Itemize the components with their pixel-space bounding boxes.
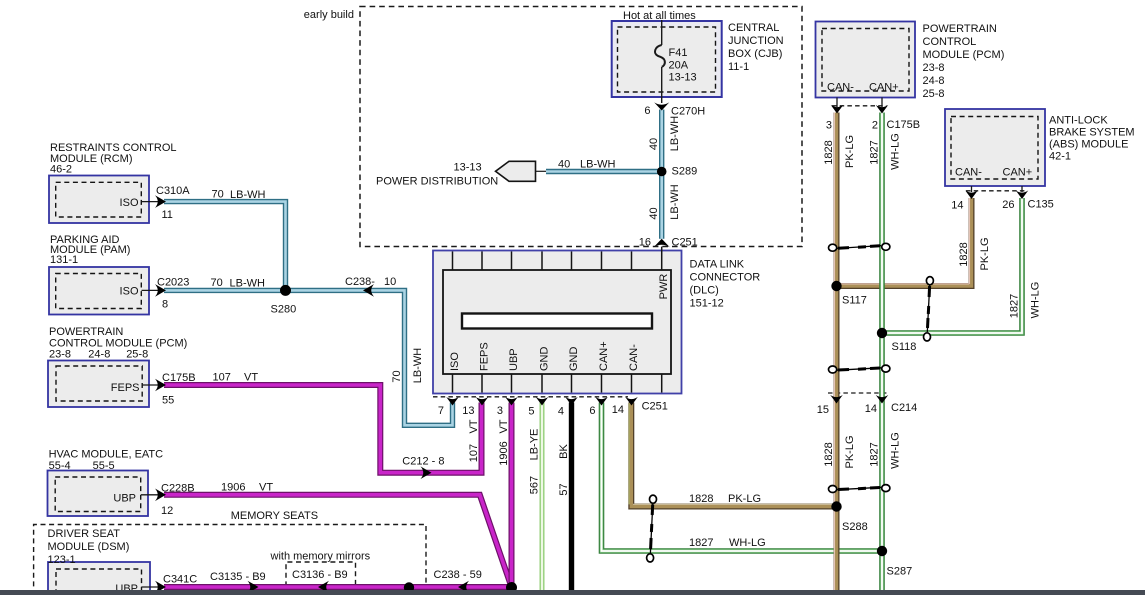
svg-text:20A: 20A: [669, 59, 689, 71]
svg-text:LB-WH: LB-WH: [580, 159, 616, 171]
svg-text:46-2: 46-2: [50, 164, 72, 176]
svg-text:LB-WH: LB-WH: [230, 278, 266, 290]
svg-text:DRIVER SEAT: DRIVER SEAT: [48, 528, 121, 540]
svg-text:CAN-: CAN-: [955, 166, 982, 178]
svg-text:MEMORY SEATS: MEMORY SEATS: [231, 510, 318, 522]
with memory mirrors dashed box: [286, 562, 356, 595]
svg-text:6: 6: [644, 105, 650, 117]
svg-text:POWERTRAIN: POWERTRAIN: [49, 326, 123, 338]
DLC inner box: [443, 270, 671, 374]
svg-text:CAN+: CAN+: [1003, 166, 1033, 178]
svg-text:C3136 - B9: C3136 - B9: [292, 569, 348, 581]
DLC top cell ticks: [453, 252, 632, 271]
svg-text:7: 7: [438, 405, 444, 417]
svg-text:123-1: 123-1: [48, 554, 76, 566]
svg-text:26: 26: [1002, 199, 1014, 211]
svg-text:HVAC MODULE, EATC: HVAC MODULE, EATC: [49, 449, 164, 461]
svg-text:FEPS: FEPS: [111, 382, 140, 394]
svg-text:BRAKE SYSTEM: BRAKE SYSTEM: [1049, 126, 1135, 138]
svg-text:MODULE (PCM): MODULE (PCM): [923, 49, 1005, 61]
svg-text:57: 57: [558, 483, 570, 495]
connector arrow C3136-B9: [318, 581, 329, 594]
svg-text:PK-LG: PK-LG: [844, 435, 856, 468]
splice S118: [877, 328, 887, 338]
splice S287: [877, 546, 887, 556]
svg-text:GND: GND: [539, 347, 551, 372]
early build dashed boundary box: [360, 7, 802, 247]
svg-text:1906: 1906: [221, 482, 245, 494]
svg-text:CONNECTOR: CONNECTOR: [690, 272, 761, 284]
central junction box CJB outer: [612, 21, 722, 97]
connector arrow C238-10: [363, 284, 374, 297]
svg-text:24-8: 24-8: [88, 349, 110, 361]
svg-text:40: 40: [648, 207, 660, 219]
svg-text:LB-WH: LB-WH: [230, 189, 266, 201]
svg-text:POWER DISTRIBUTION: POWER DISTRIBUTION: [376, 176, 498, 188]
svg-text:WH-LG: WH-LG: [890, 133, 902, 170]
svg-text:C135: C135: [1028, 199, 1054, 211]
wire 1906 VT from DLC pin 3 down: [509, 403, 515, 588]
connector arrows C251 DLC pins 7 13 3 5 4 6 14: [446, 397, 638, 406]
wire 70 LB-WH from PAM ISO through S280 and C238-10 to DLC pin 7: [164, 290, 453, 425]
connector arrow C175B at PCM FEPS output: [155, 379, 166, 392]
svg-text:early build: early build: [304, 9, 354, 21]
svg-text:LB-YE: LB-YE: [529, 429, 541, 461]
connector C214 dashed line: [828, 392, 890, 394]
splice S289: [657, 167, 667, 177]
PCM right pin stubs: [836, 98, 838, 108]
svg-text:PWR: PWR: [658, 274, 670, 300]
svg-text:C175B: C175B: [162, 372, 196, 384]
connector arrow C341C at DSM output: [155, 581, 166, 594]
svg-text:55-5: 55-5: [93, 460, 115, 472]
wire from fuse to C270H: [661, 67, 663, 103]
svg-text:151-12: 151-12: [690, 298, 724, 310]
svg-text:C2023: C2023: [157, 277, 189, 289]
svg-text:CONTROL: CONTROL: [923, 36, 977, 48]
svg-text:6: 6: [589, 405, 595, 417]
HVAC UBP output stub: [141, 494, 159, 496]
svg-text:107: 107: [213, 372, 231, 384]
wire 567 LB-YE from DLC pin 5: [540, 403, 545, 591]
ABS pin stubs: [971, 186, 973, 192]
wire 1827 WH-LG from DLC pin 6 to S287: [602, 403, 883, 552]
power distribution pentagon connector: [496, 161, 536, 181]
svg-text:25-8: 25-8: [923, 88, 945, 100]
memory seats dashed box: [34, 525, 426, 595]
svg-text:42-1: 42-1: [1049, 150, 1071, 162]
module PCM left box: [48, 361, 149, 408]
svg-text:23-8: 23-8: [49, 349, 71, 361]
svg-text:PK-LG: PK-LG: [844, 135, 856, 168]
PAM ISO output stub: [142, 289, 159, 291]
connector arrows C135 pins 14 and 26: [965, 190, 978, 199]
splice S117: [831, 281, 841, 291]
svg-text:VT: VT: [498, 419, 510, 433]
svg-text:LB-WH: LB-WH: [412, 348, 424, 384]
svg-text:13: 13: [462, 405, 474, 417]
connector arrows C175B pins 3 and 2: [831, 105, 844, 114]
svg-text:40: 40: [558, 159, 570, 171]
svg-text:C238 - 59: C238 - 59: [434, 569, 482, 581]
svg-text:23-8: 23-8: [923, 62, 945, 74]
svg-text:14: 14: [612, 404, 624, 416]
svg-text:1827: 1827: [689, 537, 713, 549]
svg-text:3: 3: [826, 120, 832, 132]
svg-text:C212 - 8: C212 - 8: [402, 456, 444, 468]
svg-text:1828: 1828: [823, 140, 835, 164]
module ABS box: [945, 109, 1045, 186]
svg-text:CAN+: CAN+: [869, 82, 899, 94]
stub from pentagon to wire: [536, 170, 549, 172]
svg-text:C238-: C238-: [345, 276, 375, 288]
wire 57 BK from DLC pin 4: [569, 403, 574, 591]
svg-text:ANTI-LOCK: ANTI-LOCK: [1049, 114, 1108, 126]
DSM UBP output stub: [142, 586, 159, 588]
data link connector DLC outer box: [433, 251, 682, 394]
wire 40 LB-WH from S289 to C251 pin 16: [659, 172, 664, 239]
splice joining DLC pin 3 HVAC and DSM: [506, 582, 517, 593]
splice S288: [831, 501, 841, 511]
svg-text:C251: C251: [642, 401, 668, 413]
svg-text:S287: S287: [887, 566, 913, 578]
svg-text:FEPS: FEPS: [479, 342, 491, 371]
svg-text:ISO: ISO: [120, 197, 139, 209]
svg-text:JUNCTION: JUNCTION: [728, 35, 784, 47]
RCM ISO output stub: [142, 201, 159, 203]
svg-text:CENTRAL: CENTRAL: [728, 22, 779, 34]
svg-text:40: 40: [648, 138, 660, 150]
svg-text:CAN-: CAN-: [827, 82, 854, 94]
svg-text:WH-LG: WH-LG: [890, 432, 902, 469]
svg-text:VT: VT: [259, 482, 273, 494]
wire 1906 VT from HVAC UBP diagonal to splice at DLC pin 3: [164, 495, 511, 587]
fuse F41 20A symbol: [655, 45, 665, 67]
connector arrow C310A at RCM output: [155, 195, 166, 208]
svg-text:15: 15: [817, 404, 829, 416]
svg-text:S118: S118: [892, 341, 917, 353]
svg-text:70: 70: [212, 188, 224, 200]
DLC slot: [462, 314, 652, 329]
svg-text:C251: C251: [672, 237, 698, 249]
svg-text:3: 3: [497, 405, 503, 417]
svg-text:131-1: 131-1: [50, 254, 78, 266]
svg-text:S288: S288: [842, 521, 868, 533]
svg-text:13-13: 13-13: [669, 72, 697, 84]
connector arrow C212-8: [421, 466, 432, 479]
svg-text:10: 10: [384, 276, 396, 288]
wire 40 LB-WH from CJB C270H to S289: [659, 110, 664, 172]
twisted pair loop above C214: [829, 365, 890, 373]
svg-text:WH-LG: WH-LG: [729, 537, 766, 549]
svg-text:1827: 1827: [869, 140, 881, 164]
wire VT from DSM UBP through C3135 C3136 C238-59 to splice: [164, 584, 512, 590]
wire 107 VT from PCM FEPS through C212-8 to DLC pin 13: [164, 385, 482, 473]
PWR pin stub through C251: [661, 247, 663, 270]
svg-text:(DLC): (DLC): [690, 285, 719, 297]
svg-text:CAN+: CAN+: [598, 341, 610, 371]
svg-text:C341C: C341C: [163, 574, 197, 586]
wire 1828 PK-LG PCM CAN- main vertical: [834, 113, 836, 591]
svg-text:C175B: C175B: [887, 119, 921, 131]
twisted pair loop above S288: [829, 485, 890, 493]
svg-text:(ABS) MODULE: (ABS) MODULE: [1049, 138, 1128, 150]
svg-text:11-1: 11-1: [728, 61, 749, 73]
wire 1827 WH-LG PCM CAN+ main vertical: [879, 113, 885, 591]
svg-text:with memory mirrors: with memory mirrors: [270, 551, 371, 563]
connector arrow C3135-B9: [248, 581, 259, 594]
svg-text:11: 11: [162, 209, 173, 221]
wire 70 LB-WH from RCM ISO to S280: [164, 202, 286, 291]
svg-text:1828: 1828: [958, 242, 970, 266]
wire from Hot at all times into fuse: [661, 20, 663, 45]
svg-text:WH-LG: WH-LG: [1030, 282, 1042, 319]
connector arrow C270H below CJB: [654, 102, 669, 110]
svg-text:F41: F41: [669, 47, 688, 59]
wire 40 LB-WH from power distribution to S289: [546, 169, 662, 174]
module HVAC box: [48, 471, 149, 517]
connector arrow C238-59: [458, 581, 469, 594]
wire 1827 WH-LG from ABS CAN+ pin 26 to S118: [884, 198, 1022, 333]
PCM FEPS output stub: [142, 384, 159, 386]
svg-text:107: 107: [468, 444, 480, 462]
svg-text:BOX (CJB): BOX (CJB): [728, 48, 782, 60]
twisted pair loop vertical on 1828/1827 horizontals: [647, 495, 657, 562]
svg-text:4: 4: [558, 406, 564, 418]
svg-text:DATA LINK: DATA LINK: [690, 259, 745, 271]
svg-text:Hot at all times: Hot at all times: [623, 10, 696, 22]
svg-text:LB-WH: LB-WH: [669, 184, 681, 220]
svg-text:55: 55: [162, 395, 174, 407]
svg-text:VT: VT: [244, 372, 258, 384]
svg-text:1827: 1827: [1009, 294, 1021, 318]
svg-text:PK-LG: PK-LG: [979, 237, 991, 270]
svg-text:PK-LG: PK-LG: [728, 493, 761, 505]
svg-text:S289: S289: [672, 166, 698, 178]
svg-text:GND: GND: [568, 347, 580, 372]
svg-text:70: 70: [391, 370, 403, 382]
connector arrow C228B at HVAC output: [155, 489, 166, 502]
svg-text:C3135 - B9: C3135 - B9: [210, 571, 266, 583]
svg-text:567: 567: [529, 476, 541, 494]
svg-text:ISO: ISO: [120, 286, 139, 298]
svg-text:1828: 1828: [689, 493, 713, 505]
svg-text:LB-WH: LB-WH: [669, 116, 681, 152]
svg-text:1828: 1828: [823, 442, 835, 466]
svg-text:12: 12: [161, 505, 173, 517]
svg-text:8: 8: [162, 299, 168, 311]
wire 1828 PK-LG from DLC pin 14 to S288: [629, 403, 836, 507]
svg-text:C228B: C228B: [161, 483, 195, 495]
module PCM right box: [816, 22, 916, 98]
connector C135 dashed line: [966, 190, 1027, 192]
svg-text:ISO: ISO: [449, 352, 461, 371]
bottom gray band: [0, 590, 1145, 595]
svg-text:MODULE (DSM): MODULE (DSM): [48, 541, 130, 553]
svg-text:BK: BK: [558, 444, 570, 459]
svg-text:14: 14: [865, 403, 877, 415]
svg-text:C214: C214: [891, 402, 917, 414]
twisted pair loop upper on CAN verticals: [829, 243, 890, 251]
svg-text:S117: S117: [842, 295, 867, 307]
svg-text:1827: 1827: [869, 442, 881, 466]
connector C251 bottom dashed line: [433, 396, 628, 398]
connector arrow C251 pin 16 pointing up: [654, 239, 670, 248]
splice on memory seats wire: [404, 582, 414, 592]
connector C175B dashed line: [832, 105, 887, 107]
svg-text:UBP: UBP: [113, 493, 136, 505]
svg-text:13-13: 13-13: [454, 162, 482, 174]
DLC bottom pin stubs: [453, 374, 662, 393]
svg-text:25-8: 25-8: [126, 349, 148, 361]
svg-text:VT: VT: [468, 419, 480, 433]
connector arrow C2023 at PAM output: [155, 284, 166, 297]
svg-text:5: 5: [528, 406, 534, 418]
svg-text:UBP: UBP: [508, 348, 520, 371]
module DSM box: [48, 562, 150, 595]
module RCM box: [49, 176, 149, 224]
wire 1828 PK-LG from ABS CAN- pin 14 to S117: [839, 198, 972, 286]
svg-text:CAN-: CAN-: [628, 344, 640, 371]
svg-text:14: 14: [951, 200, 963, 212]
svg-text:2: 2: [872, 120, 878, 132]
svg-text:C270H: C270H: [671, 106, 705, 118]
svg-text:24-8: 24-8: [923, 75, 945, 87]
svg-text:S280: S280: [271, 304, 297, 316]
svg-text:C310A: C310A: [156, 185, 190, 197]
svg-text:55-4: 55-4: [49, 460, 71, 472]
module PAM box: [49, 267, 149, 315]
svg-text:POWERTRAIN: POWERTRAIN: [923, 23, 997, 35]
svg-text:16: 16: [639, 237, 651, 249]
twisted pair loop vertical between S117 and S118 branches: [924, 277, 934, 341]
CJB inner dashed box: [618, 27, 716, 92]
svg-text:70: 70: [211, 277, 223, 289]
svg-text:1906: 1906: [498, 441, 510, 465]
connector arrows C214 pins 15 and 14: [830, 395, 843, 404]
splice S280: [280, 285, 291, 296]
